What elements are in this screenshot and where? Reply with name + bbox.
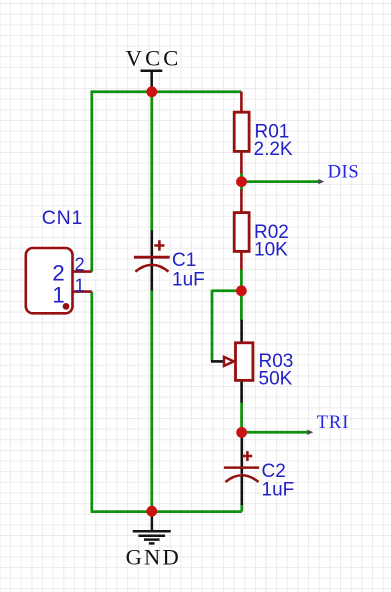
wire middle vertical lower (C1 to GND rail) bbox=[150, 290, 153, 512]
potentiometer R03 body bbox=[236, 343, 253, 381]
capacitor C2 plus sign bbox=[242, 451, 252, 461]
wire middle vertical upper (VCC rail to C1) bbox=[150, 92, 153, 231]
ground symbol GND bbox=[133, 511, 171, 543]
wire between R01 and R02 at node DIS bbox=[240, 173, 243, 191]
TRI wire end arrow bbox=[307, 430, 313, 435]
wire wiper loop vertical bbox=[211, 290, 214, 362]
junction node TRI bbox=[236, 427, 247, 438]
capacitor C1 top plate bbox=[134, 256, 170, 259]
capacitor C1 curved plate bbox=[135, 265, 168, 272]
wire C2 bottom to GND rail bbox=[240, 504, 243, 512]
pin C2 top (black lead from node TRI) bbox=[241, 433, 244, 475]
junction node GND bbox=[146, 506, 157, 517]
wire R03 bottom to node TRI bbox=[240, 402, 243, 432]
svg-text:1uF: 1uF bbox=[172, 269, 205, 290]
pin R01 bottom bbox=[240, 151, 243, 174]
capacitor C1 plus sign bbox=[154, 240, 164, 250]
svg-text:VCC: VCC bbox=[126, 46, 182, 71]
pin R01 top bbox=[240, 92, 243, 112]
pin R02 bottom bbox=[240, 251, 243, 270]
DIS wire end arrow bbox=[318, 179, 324, 184]
wire wiper loop horizontal bbox=[212, 289, 241, 292]
wire left rail upper (VCC to CN1 pin 2) bbox=[90, 91, 93, 272]
pin CN1 pin 2 stub bbox=[72, 270, 92, 273]
pin CN1 pin 1 stub bbox=[72, 290, 92, 293]
wire bottom GND rail bbox=[91, 510, 242, 513]
svg-text:GND: GND bbox=[126, 544, 181, 569]
wire top rail VCC bbox=[91, 90, 242, 93]
pin C2 bottom (black lead) bbox=[241, 475, 244, 505]
wire TRI stub bbox=[242, 431, 310, 434]
pin C1 bottom (black lead) bbox=[151, 265, 154, 291]
capacitor C2 curved plate bbox=[225, 475, 258, 482]
svg-text:DIS: DIS bbox=[328, 162, 360, 182]
svg-text:C1: C1 bbox=[172, 250, 196, 271]
pin R03 top (black lead) bbox=[240, 320, 243, 343]
pin R03 bottom (black lead) bbox=[240, 381, 243, 403]
svg-text:CN1: CN1 bbox=[42, 207, 83, 229]
power flag VCC bar bbox=[141, 71, 163, 92]
pin R02 top bbox=[240, 190, 243, 213]
svg-text:50K: 50K bbox=[259, 369, 293, 390]
wire DIS stub bbox=[242, 180, 321, 183]
pin C1 top (black lead) bbox=[151, 230, 154, 264]
svg-text:2.2K: 2.2K bbox=[254, 139, 293, 160]
svg-text:TRI: TRI bbox=[317, 413, 350, 433]
wire R02 bottom to node and down to R03 bbox=[240, 269, 243, 321]
svg-text:2: 2 bbox=[75, 254, 85, 274]
junction node R02/R03 bbox=[236, 285, 247, 296]
svg-text:1: 1 bbox=[75, 275, 85, 295]
junction node VCC bbox=[146, 86, 157, 97]
resistor R02 body bbox=[234, 213, 249, 252]
resistor R01 body bbox=[234, 112, 249, 151]
svg-text:10K: 10K bbox=[254, 240, 288, 261]
junction node DIS bbox=[236, 176, 247, 187]
potentiometer R03 wiper arrow bbox=[224, 357, 234, 366]
wire left rail lower (CN1 pin 1 to GND rail) bbox=[90, 292, 93, 512]
connector CN1 polarity dot bbox=[63, 303, 70, 310]
svg-text:1uF: 1uF bbox=[262, 479, 295, 500]
pin R03 wiper stub (black lead) bbox=[211, 360, 224, 363]
svg-text:1: 1 bbox=[52, 283, 65, 308]
capacitor C2 top plate bbox=[224, 466, 259, 469]
connector CN1 body bbox=[26, 248, 73, 313]
